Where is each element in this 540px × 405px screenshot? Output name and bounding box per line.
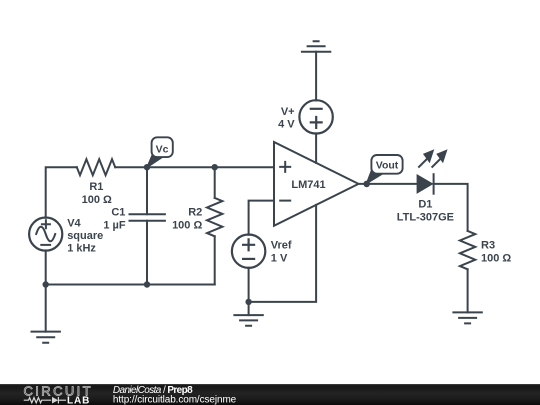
voltage source V+ 4 V	[299, 100, 332, 133]
node flag Vout box	[371, 155, 402, 174]
svg-text:C1: C1	[111, 206, 125, 218]
LED D1 cathode bar	[433, 174, 435, 194]
svg-text:D1: D1	[418, 198, 432, 210]
svg-text:square: square	[67, 230, 103, 242]
footer bar	[0, 384, 540, 405]
wire V4 bottom to ground	[45, 250, 47, 331]
junction node dot V4 bottom	[43, 281, 49, 287]
logo resistor-diode squiggle	[24, 397, 66, 404]
wire op-amp V+ pin up to V+ source	[315, 133, 317, 163]
wire LED to corner and down to R3	[434, 184, 468, 231]
svg-text:V+: V+	[281, 106, 295, 118]
svg-text:1 µF: 1 µF	[103, 220, 126, 232]
svg-text:4 V: 4 V	[278, 118, 295, 130]
voltage source Vref 1 V	[232, 235, 265, 268]
junction node dot Vc	[144, 164, 150, 170]
svg-text:1 V: 1 V	[271, 252, 288, 264]
wire op-amp - input from Vref	[249, 201, 274, 235]
junction node dot Vref bottom	[245, 299, 251, 305]
svg-text:Vref: Vref	[271, 239, 292, 251]
LED light arrow 1	[418, 150, 433, 167]
capacitor C1	[130, 214, 165, 221]
svg-text:R3: R3	[481, 239, 495, 251]
voltage source V4 (square 1 kHz)	[29, 218, 62, 251]
ground (below R3)	[453, 312, 481, 323]
logo diode triangle	[52, 397, 58, 404]
svg-text:R2: R2	[188, 207, 202, 219]
node flag Vc box	[152, 137, 173, 157]
svg-text:LAB: LAB	[67, 395, 90, 405]
resistor R2	[207, 198, 222, 236]
svg-text:100 Ω: 100 Ω	[82, 194, 112, 206]
wire C1 bottom	[146, 221, 148, 285]
ground (below Vref)	[234, 315, 262, 326]
wire R3 bottom lead	[467, 269, 469, 312]
resistor R1	[77, 159, 115, 175]
wire top-left corner to R1	[46, 167, 77, 218]
wire op-amp output to LED anode	[359, 183, 418, 185]
svg-text:100 Ω: 100 Ω	[481, 252, 511, 264]
junction node dot R2 top	[212, 164, 218, 170]
junction node dot output	[363, 181, 370, 188]
wire Vref bottom to ground	[248, 268, 250, 315]
ground (bottom-left)	[32, 332, 60, 343]
svg-text:1 kHz: 1 kHz	[67, 242, 96, 254]
wire R2 top lead	[214, 167, 216, 198]
wire R1 to op-amp + input (node Vc row)	[115, 166, 274, 168]
svg-text:Vout: Vout	[376, 160, 399, 172]
wire R2 bottom lead	[214, 236, 216, 284]
node flag Vout pointer	[367, 170, 384, 183]
wire V+ top to inverted ground	[315, 52, 317, 101]
svg-text:100 Ω: 100 Ω	[172, 220, 202, 232]
node flag Vc pointer	[147, 156, 162, 167]
LED D1 triangle	[417, 175, 433, 193]
svg-text:http://circuitlab.com/csejnme: http://circuitlab.com/csejnme	[113, 394, 237, 405]
op-amp U1 LM741 triangle	[274, 142, 359, 226]
wire C1 top	[146, 167, 148, 214]
svg-text:R1: R1	[89, 181, 103, 193]
wire op-amp V- pin down and left to Vref ground node	[249, 205, 317, 302]
svg-text:V4: V4	[67, 217, 81, 229]
resistor R3	[460, 231, 475, 269]
junction node dot C1 bottom	[144, 281, 150, 287]
LED light arrow 2	[432, 150, 447, 167]
svg-text:LM741: LM741	[291, 179, 325, 191]
svg-text:LTL-307GE: LTL-307GE	[397, 211, 454, 223]
ground (top, inverted)	[302, 41, 330, 51]
svg-text:Vc: Vc	[156, 143, 169, 155]
wire bottom rail	[46, 284, 215, 286]
